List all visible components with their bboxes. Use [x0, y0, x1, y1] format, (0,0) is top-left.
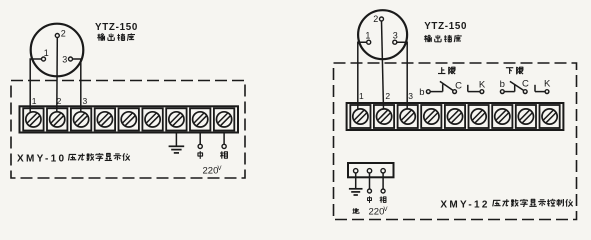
- svg-text:b: b: [419, 87, 424, 98]
- terminal XMY-12-5 screw: [445, 105, 465, 128]
- value label 220V (right): [369, 207, 388, 218]
- svg-text:220: 220: [203, 166, 219, 177]
- svg-text:YTZ-150: YTZ-150: [424, 21, 467, 32]
- svg-text:220: 220: [369, 207, 385, 218]
- svg-text:C: C: [455, 80, 462, 91]
- svg-text:V: V: [218, 166, 222, 172]
- label 输出插座 (output socket, right): [424, 35, 462, 42]
- terminal block XMY-12 outline: [347, 103, 564, 130]
- wire pin1 to terminal 1 (left): [30, 59, 41, 112]
- terminal XMY-10-4 screw: [95, 108, 115, 130]
- svg-text:b: b: [500, 79, 505, 90]
- label 地 (earth): [352, 208, 359, 213]
- svg-text:C: C: [522, 78, 529, 89]
- svg-text:3: 3: [408, 91, 413, 101]
- controller XMY-12 dashed enclosure: [334, 63, 577, 220]
- terminal block XMY-10 outline: [20, 106, 239, 132]
- power terminal 2: [367, 169, 371, 173]
- pin 3 (left plug): [62, 55, 72, 65]
- label 压力数字显示仪 (pressure digital display instrument): [68, 153, 129, 161]
- phase lead 相 (XMY-12): [380, 173, 386, 203]
- relay contact b-C (upper limit): [419, 80, 462, 98]
- svg-text:K: K: [479, 80, 486, 91]
- power terminal block (XMY-12): [348, 163, 394, 177]
- svg-text:1: 1: [32, 96, 37, 106]
- connector plug YTZ-150 (right) body: [358, 10, 407, 59]
- pin 1 (right plug): [365, 31, 370, 45]
- label 下限 (lower limit): [506, 67, 523, 75]
- terminal XMY-12-4 screw: [421, 105, 441, 128]
- terminal XMY-10-6 screw: [142, 108, 162, 130]
- terminal XMY-12-8 screw: [516, 105, 536, 128]
- wire pin3 to terminal 3 (right): [397, 42, 407, 109]
- relay contact K (lower limit): [535, 78, 551, 93]
- label 输出插座 (output socket, left): [97, 33, 135, 40]
- terminal XMY-10-7 screw: [166, 108, 186, 130]
- neutral lead 中 (left, terminal 8): [198, 133, 203, 159]
- terminal XMY-12-2 screw: [374, 105, 394, 128]
- svg-text:2: 2: [57, 96, 62, 106]
- label 压力数字显示控制仪 (pressure digital display controller): [493, 199, 573, 207]
- wire pin2 to terminal 2 (left): [56, 38, 59, 113]
- svg-text:XMY-10: XMY-10: [17, 153, 66, 164]
- pin 3 (right plug): [393, 31, 398, 45]
- power terminal 3: [381, 169, 385, 173]
- svg-text:1: 1: [359, 91, 364, 101]
- svg-text:2: 2: [373, 14, 378, 24]
- svg-text:2: 2: [61, 29, 66, 39]
- phase lead 相 (left, terminal 9): [220, 133, 227, 159]
- terminal XMY-12-1 screw: [350, 105, 370, 128]
- terminal XMY-12-6 screw: [469, 105, 489, 128]
- svg-text:3: 3: [393, 31, 398, 41]
- pin 2 (left plug): [55, 29, 66, 39]
- terminal XMY-12-7 screw: [492, 105, 512, 128]
- ground lead + symbol (XMY-12): [349, 173, 363, 195]
- power terminal 1: [354, 169, 358, 173]
- terminal XMY-10-8 screw: [190, 108, 210, 130]
- svg-text:YTZ-150: YTZ-150: [95, 22, 138, 33]
- terminal XMY-10-1 screw: [23, 108, 43, 130]
- svg-text:V: V: [384, 207, 388, 213]
- value label 220V (left): [203, 166, 222, 177]
- wire pin1 to terminal 1 (right): [358, 42, 367, 109]
- svg-text:1: 1: [44, 48, 49, 58]
- terminal XMY-10-9 screw: [214, 108, 234, 130]
- relay contact b-C (lower limit): [500, 78, 529, 93]
- ground symbol (left, terminal 7): [169, 133, 185, 153]
- relay contact K (upper limit): [468, 80, 486, 94]
- svg-text:XMY-12: XMY-12: [440, 199, 489, 210]
- svg-text:2: 2: [385, 91, 390, 101]
- terminal XMY-10-5 screw: [119, 108, 139, 130]
- pin 1 (left plug): [42, 48, 49, 61]
- terminal XMY-10-3 screw: [71, 108, 91, 130]
- pin 2 (right plug): [373, 14, 383, 24]
- instrument XMY-10 dashed enclosure: [11, 81, 245, 179]
- svg-text:3: 3: [83, 96, 88, 106]
- svg-text:3: 3: [62, 55, 67, 65]
- connector plug YTZ-150 (left) body: [31, 24, 84, 77]
- terminal XMY-12-3 screw: [398, 105, 418, 128]
- terminal XMY-12-9 screw: [540, 105, 560, 128]
- label 上限 (upper limit): [438, 67, 455, 75]
- terminal XMY-10-2 screw: [47, 108, 67, 130]
- neutral lead 中 (XMY-12): [368, 173, 372, 203]
- svg-text:K: K: [544, 78, 551, 89]
- svg-text:1: 1: [365, 31, 370, 41]
- wire pin3 to terminal 3 (left): [73, 59, 81, 112]
- wire pin2 to terminal 2 (right): [382, 21, 384, 109]
